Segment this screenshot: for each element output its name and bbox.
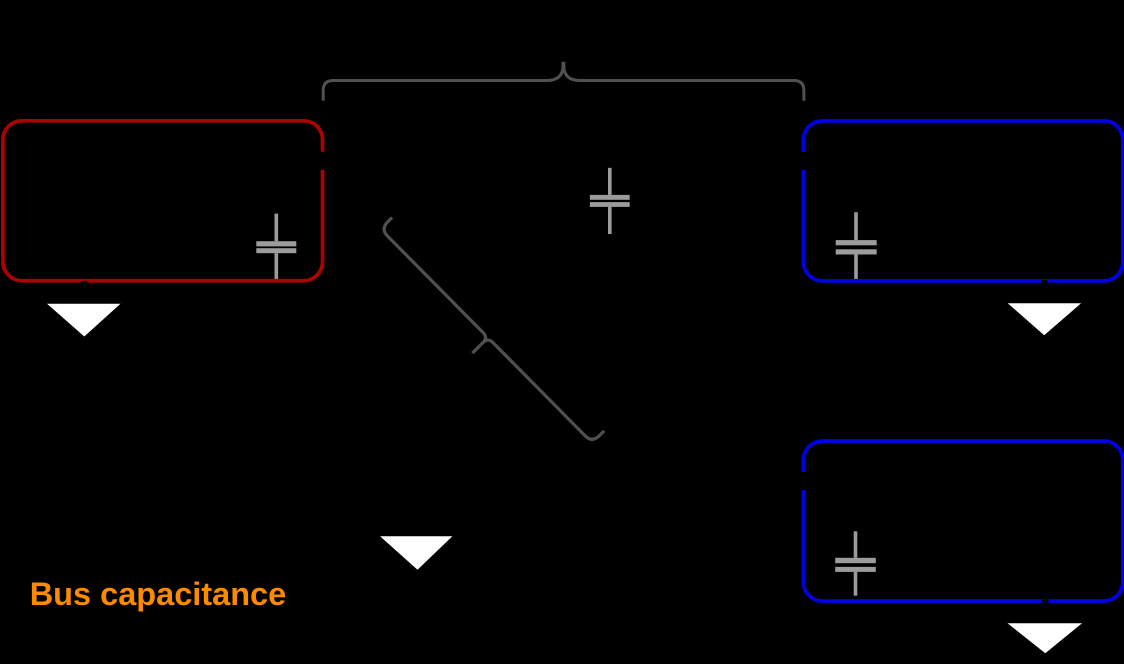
brace B2 (diagonal, points to bus capacitance) xyxy=(365,217,604,458)
device box U3 (slave 2, blue) xyxy=(803,441,1122,601)
ground GND1 (below U1) xyxy=(47,304,121,337)
ground GND4 (below U3) xyxy=(1008,623,1083,653)
brace B1 (top, spans the bus wires) xyxy=(323,62,804,101)
wire bus stub entering U1 right edge (black, cuts gap in red border) xyxy=(319,152,328,170)
wire U2 to GND3 (black, notches blue bottom border) xyxy=(1041,280,1047,303)
wire SCL bus (black, hidden on black background) xyxy=(3,199,1121,201)
wire from C2 to ground (black, hidden) xyxy=(417,234,610,536)
svg-text:Bus capacitance: Bus capacitance xyxy=(30,576,287,612)
capacitor C1 (inside U1) xyxy=(256,214,296,281)
wire U3 to GND4 (black, notches blue bottom border) xyxy=(1042,599,1048,622)
capacitor C4 (inside U3) xyxy=(835,531,876,595)
device box U1 (master, red) xyxy=(3,121,323,281)
wire SDA bus (black, hidden on black background) xyxy=(3,159,1121,161)
capacitor C3 (inside U2) xyxy=(836,212,877,280)
capacitor C2 (bus capacitance, middle) xyxy=(590,168,630,234)
wire bus stub entering U2 left edge (black, cuts gap in blue border) xyxy=(799,152,808,170)
ground GND3 (below U2) xyxy=(1008,303,1081,335)
device box U2 (slave 1, blue) xyxy=(803,121,1122,281)
wire bus stub entering U3 left edge (black, cuts gap in blue border) xyxy=(799,472,808,490)
wire U1 to GND1 (black, notches red bottom border) xyxy=(81,281,87,303)
ground GND2 (middle bottom) xyxy=(380,536,452,569)
